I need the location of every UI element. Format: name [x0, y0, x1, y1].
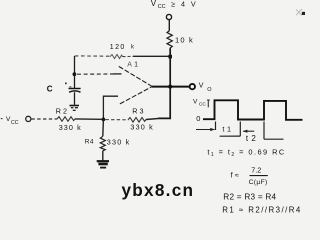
- wire R4 to ground: [102, 151, 104, 161]
- wire terminal to R2 dashed: [31, 118, 57, 120]
- t1 lower measure line: [220, 135, 241, 137]
- svg-text:A1: A1: [127, 62, 140, 69]
- svg-text:t2: t2: [246, 134, 259, 143]
- svg-text:t1: t1: [222, 125, 233, 134]
- resistor R4 330k: [100, 136, 105, 151]
- noise blob top right: [296, 9, 305, 15]
- svg-text:R2: R2: [56, 107, 69, 116]
- net label VCC >= 4V: [151, 0, 198, 10]
- svg-text:t1 = t2 = 0.69 RC: t1 = t2 = 0.69 RC: [207, 148, 285, 159]
- wire feedback dashed segment right of R1: [123, 55, 134, 57]
- wire feedback dashed segment left of R1: [75, 55, 111, 57]
- terminal VCC top: [166, 14, 171, 19]
- wire junction to R3 dashed: [106, 119, 129, 121]
- resistor R3 330k: [128, 118, 146, 123]
- svg-text:≥ 4 V: ≥ 4 V: [171, 0, 197, 8]
- label VCC left input: [1, 116, 19, 126]
- svg-text:C: C: [47, 85, 53, 94]
- value label 120k: [110, 44, 135, 51]
- svg-text:V: V: [199, 83, 204, 90]
- wire capacitor to ground: [74, 92, 76, 105]
- capacitor C bottom plate: [69, 91, 80, 92]
- ground (below R4): [97, 161, 109, 167]
- wire op-amp output: [152, 86, 190, 88]
- ground (below C): [70, 106, 80, 111]
- waveform tick below rising edge 1: [215, 122, 217, 131]
- svg-text:CC: CC: [199, 101, 206, 107]
- wire output pull-up vertical: [158, 48, 170, 118]
- op-amp A1 bottom edge: [120, 87, 152, 104]
- noise dot near C: [65, 83, 67, 85]
- svg-text:C(µF): C(µF): [249, 179, 268, 186]
- wire terminal to R (10k): [168, 20, 170, 31]
- wire feedback solid segment: [133, 55, 169, 57]
- t2 arrow: [243, 130, 254, 132]
- resistor R2 330k: [57, 117, 75, 122]
- t1 left arrow: [196, 129, 215, 131]
- svg-text:330 k: 330 k: [59, 123, 82, 132]
- svg-text:R3: R3: [132, 106, 145, 115]
- waveform tick below rising edge 2 with foot: [264, 122, 284, 140]
- svg-text:V: V: [151, 0, 157, 8]
- junction output/pull-up: [168, 85, 172, 89]
- svg-text:V: V: [193, 98, 198, 105]
- resistor 10k: [167, 31, 172, 49]
- wire inverting input stub: [113, 73, 122, 75]
- waveform square wave: [203, 100, 303, 120]
- junction non-inverting node: [102, 118, 106, 122]
- waveform tick below falling edge 1: [239, 122, 241, 137]
- capacitor C top plate: [69, 88, 81, 90]
- svg-text:CC: CC: [11, 120, 19, 126]
- svg-text:R2 = R3 = R4: R2 = R3 = R4: [223, 193, 276, 202]
- svg-text:10 k: 10 k: [175, 36, 194, 45]
- terminal VCC left: [26, 116, 31, 121]
- wire node A vertical (feedback corner down to cap): [74, 56, 76, 88]
- svg-text:0: 0: [196, 114, 200, 123]
- wire R3 to pull-up corner: [146, 119, 158, 120]
- op-amp A1 top edge: [119, 66, 152, 86]
- wire non-inverting input stub: [103, 96, 118, 119]
- wire junction down to R4: [102, 119, 105, 136]
- formula f = 7.2/C(uF): [231, 166, 268, 187]
- node A junction dot: [73, 72, 77, 76]
- waveform label VCC: [193, 98, 206, 107]
- resistor R1 120k: [110, 55, 123, 59]
- svg-text:330 k: 330 k: [130, 122, 154, 131]
- svg-text:CC: CC: [158, 4, 166, 10]
- svg-text:7.2: 7.2: [251, 166, 261, 175]
- wire node A to inverting input dashed: [77, 73, 113, 75]
- label VO: [199, 83, 213, 93]
- svg-text:O: O: [207, 87, 212, 93]
- capacitor C polarity tick: [69, 86, 71, 88]
- terminal VO: [190, 84, 195, 89]
- svg-text:330 k: 330 k: [107, 137, 131, 146]
- wire R2 to junction: [75, 118, 102, 120]
- svg-text:ybx8.cn: ybx8.cn: [122, 180, 195, 200]
- waveform VCC level tick: [207, 100, 210, 107]
- svg-text:R1 ≈ R2//R3//R4: R1 ≈ R2//R3//R4: [222, 205, 302, 214]
- junction feedback/10k: [168, 55, 172, 59]
- svg-text:f ≈: f ≈: [231, 170, 239, 179]
- svg-text:120: 120: [110, 44, 126, 51]
- svg-text:R4: R4: [85, 139, 94, 146]
